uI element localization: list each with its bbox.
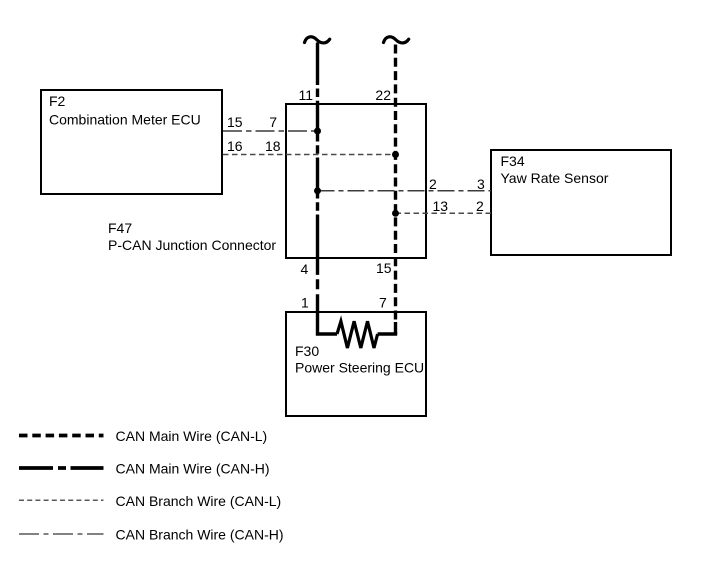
svg-text:P-CAN Junction Connector: P-CAN Junction Connector — [108, 237, 276, 253]
wire CAN-H main vertical (dash-dot heavy) — [316, 43, 319, 290]
svg-text:16: 16 — [227, 138, 243, 154]
svg-text:F30: F30 — [295, 343, 319, 359]
svg-text:2: 2 — [476, 198, 484, 214]
wire CAN-L main vertical (dashed heavy) — [394, 45, 397, 335]
wire branch CAN-H from F2 pins 15/7 (thin dash-dot) — [223, 130, 318, 132]
svg-text:4: 4 — [301, 261, 309, 277]
svg-text:11: 11 — [298, 87, 313, 103]
svg-text:F2: F2 — [49, 93, 66, 109]
box F2 Combination Meter ECU — [41, 90, 222, 194]
legend line CAN Main Wire (CAN-H) heavy dash-dot — [19, 461, 270, 477]
wire branch CAN-L to F34 pins 13/2 (thin dashed) — [396, 212, 492, 214]
wire CAN-H horizontal inside F30 to resistor (solid) — [318, 294, 338, 334]
node junction dot CAN-H / F2 branch — [314, 128, 321, 135]
wire branch CAN-H to F34 pins 2/3 (thin dash-dot) — [318, 190, 492, 192]
svg-text:1: 1 — [301, 295, 309, 311]
label F47 P-CAN Junction Connector — [108, 220, 276, 253]
wire branch CAN-L from F2 pins 16/18 (thin dashed) — [223, 154, 396, 156]
svg-text:F47: F47 — [108, 220, 132, 236]
svg-text:CAN Main Wire (CAN-H): CAN Main Wire (CAN-H) — [116, 461, 270, 477]
svg-text:CAN Main Wire (CAN-L): CAN Main Wire (CAN-L) — [116, 428, 268, 444]
legend line CAN Main Wire (CAN-L) heavy dashed — [19, 428, 267, 444]
svg-text:F34: F34 — [501, 153, 525, 169]
resistor termination inside F30 — [337, 321, 378, 348]
svg-text:13: 13 — [433, 198, 449, 214]
break symbol (tilde) top of CAN-L main wire — [384, 37, 409, 43]
svg-text:3: 3 — [477, 176, 485, 192]
svg-text:2: 2 — [429, 176, 437, 192]
svg-text:22: 22 — [375, 87, 391, 103]
svg-text:7: 7 — [269, 114, 277, 130]
wire CAN-L horizontal inside F30 from resistor (solid) — [378, 332, 398, 335]
svg-text:18: 18 — [265, 138, 281, 154]
legend line CAN Branch Wire (CAN-L) thin dashed — [19, 493, 281, 509]
svg-text:CAN Branch Wire (CAN-H): CAN Branch Wire (CAN-H) — [116, 527, 284, 543]
break symbol (tilde) top of CAN-H main wire — [305, 37, 330, 43]
legend line CAN Branch Wire (CAN-H) thin dash-dot — [19, 527, 284, 543]
svg-text:Yaw Rate Sensor: Yaw Rate Sensor — [501, 170, 609, 186]
svg-text:Combination Meter ECU: Combination Meter ECU — [49, 112, 201, 128]
svg-text:7: 7 — [379, 295, 387, 311]
node junction dot CAN-L / F2 branch — [392, 151, 399, 158]
svg-text:15: 15 — [227, 114, 243, 130]
box F47 P-CAN Junction Connector — [286, 104, 426, 258]
svg-text:Power Steering ECU: Power Steering ECU — [295, 360, 424, 376]
box F34 Yaw Rate Sensor — [491, 150, 671, 255]
box F30 Power Steering ECU — [286, 312, 426, 416]
svg-text:CAN Branch Wire (CAN-L): CAN Branch Wire (CAN-L) — [116, 493, 282, 509]
svg-text:15: 15 — [376, 260, 392, 276]
node junction dot CAN-L / F34 branch — [392, 210, 399, 217]
node junction dot CAN-H / F34 branch — [314, 187, 321, 194]
